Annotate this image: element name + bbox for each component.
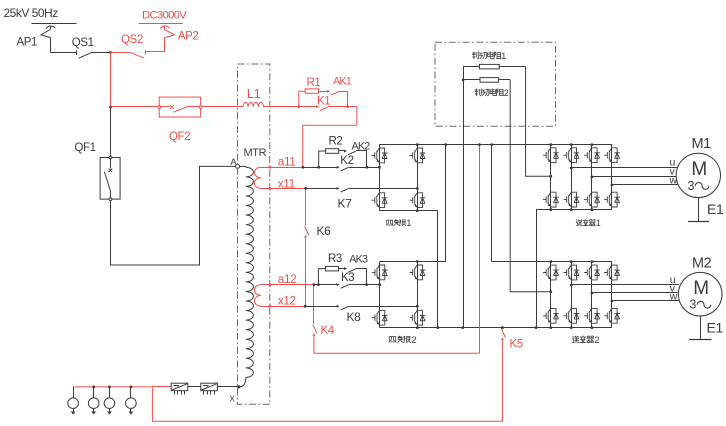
svg-text:K3: K3	[341, 272, 354, 284]
svg-text:a11: a11	[278, 154, 296, 168]
svg-text:R1: R1	[307, 77, 321, 89]
svg-text:1: 1	[596, 218, 601, 228]
svg-text:R3: R3	[328, 253, 342, 265]
svg-text:K1: K1	[317, 96, 330, 108]
svg-text:a12: a12	[278, 272, 296, 286]
svg-text:x12: x12	[278, 294, 296, 308]
svg-text:w: w	[669, 175, 678, 187]
svg-text:K4: K4	[321, 325, 335, 337]
svg-text:AK3: AK3	[349, 253, 368, 265]
svg-text:AP2: AP2	[178, 30, 199, 42]
svg-text:x11: x11	[278, 177, 295, 191]
svg-text:QF1: QF1	[75, 142, 96, 154]
svg-text:K2: K2	[340, 155, 353, 167]
svg-text:E1: E1	[707, 320, 724, 336]
svg-text:M: M	[693, 278, 708, 299]
svg-text:K6: K6	[317, 224, 332, 238]
svg-text:MTR: MTR	[244, 147, 267, 159]
svg-text:2: 2	[504, 88, 509, 98]
svg-text:2: 2	[594, 335, 599, 346]
svg-text:R2: R2	[329, 136, 343, 148]
svg-text:E1: E1	[707, 201, 724, 217]
svg-text:1: 1	[406, 218, 411, 228]
svg-text:AK1: AK1	[333, 75, 352, 87]
svg-text:AK2: AK2	[352, 141, 371, 153]
svg-text:L1: L1	[247, 86, 261, 101]
svg-text:25kV 50Hz: 25kV 50Hz	[4, 6, 59, 20]
svg-text:DC3000V: DC3000V	[142, 10, 187, 22]
svg-text:M1: M1	[692, 136, 712, 152]
svg-text:3: 3	[689, 298, 696, 312]
svg-text:QF2: QF2	[169, 131, 190, 143]
svg-text:w: w	[669, 291, 678, 303]
svg-text:K5: K5	[510, 339, 523, 351]
svg-text:M: M	[691, 159, 706, 180]
svg-text:AP1: AP1	[17, 36, 38, 48]
svg-text:QS2: QS2	[121, 34, 143, 46]
svg-text:X: X	[229, 393, 235, 403]
svg-text:K7: K7	[338, 197, 353, 211]
svg-text:K8: K8	[347, 310, 362, 324]
svg-text:2: 2	[411, 335, 416, 346]
svg-text:1: 1	[501, 51, 506, 61]
svg-text:3: 3	[688, 179, 695, 193]
svg-text:QS1: QS1	[72, 37, 94, 49]
svg-text:M2: M2	[692, 256, 712, 272]
